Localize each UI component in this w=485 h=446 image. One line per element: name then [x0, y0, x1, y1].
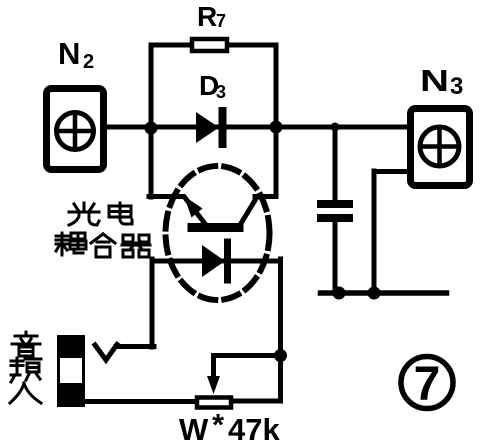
- junction dot wiper: [274, 349, 287, 362]
- potentiometer W body: [197, 398, 231, 408]
- wire ground rail: [321, 290, 447, 296]
- emitter arrowhead: [184, 196, 203, 218]
- wire wiper row: [214, 356, 281, 379]
- wire LED row: [152, 259, 280, 264]
- label ru (input): [10, 383, 41, 403]
- resistor R7: [192, 39, 227, 51]
- wire LED left down to jack: [116, 259, 154, 347]
- svg-text:47k: 47k: [228, 412, 280, 446]
- wire R7 right vertical: [229, 45, 276, 130]
- label pin (frequency): [11, 358, 41, 382]
- svg-text:7: 7: [414, 358, 441, 411]
- LED cathode bar: [224, 242, 231, 280]
- junction dot left: [145, 122, 158, 135]
- junction dot rail left: [333, 287, 346, 300]
- svg-text:3: 3: [216, 82, 226, 102]
- diode D3: [196, 111, 223, 144]
- wire LED right down: [233, 259, 281, 401]
- wire R7 left vertical: [151, 45, 190, 130]
- svg-text:*: *: [212, 407, 225, 442]
- svg-text:N: N: [58, 36, 80, 71]
- junction dot rail right: [368, 287, 381, 300]
- label guang (light): [69, 203, 99, 225]
- label dian (electric): [109, 203, 132, 224]
- label ou (couple): [56, 233, 86, 255]
- svg-text:N: N: [420, 63, 449, 98]
- phototransistor base bar: [192, 223, 239, 232]
- wire N3 lower branch: [374, 171, 408, 291]
- wire pot left lead: [85, 399, 196, 404]
- wire main horizontal node: [105, 125, 409, 130]
- svg-text:2: 2: [83, 51, 94, 73]
- audio jack connector: [57, 335, 85, 407]
- optocoupler dashed ellipse: [166, 166, 270, 300]
- junction bump at cap top: [331, 123, 340, 132]
- wire emitter branch: [149, 127, 206, 225]
- svg-text:R: R: [197, 1, 217, 32]
- terminal N2: [47, 89, 104, 170]
- jack plug check symbol: [95, 345, 117, 361]
- figure number circle 7: [401, 357, 453, 409]
- label qi (device): [122, 235, 150, 257]
- label he (join): [91, 234, 115, 257]
- junction dot right: [270, 121, 283, 134]
- svg-text:W: W: [179, 412, 209, 446]
- wire collector branch: [240, 127, 276, 225]
- svg-text:7: 7: [216, 11, 226, 31]
- svg-text:3: 3: [450, 73, 463, 100]
- wiper arrowhead: [207, 376, 220, 394]
- LED diode: [202, 245, 225, 277]
- label yin (sound): [12, 332, 40, 356]
- capacitor C: [321, 129, 349, 291]
- terminal N3: [411, 109, 470, 186]
